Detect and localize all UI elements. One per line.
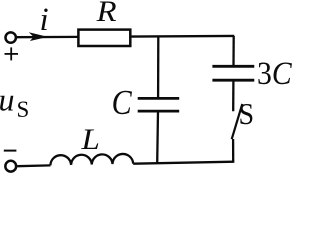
svg-text:i: i bbox=[40, 2, 49, 38]
wire (junction to capacitor C) bbox=[157, 36, 159, 98]
capacitor C bbox=[138, 98, 180, 111]
capacitor 3C bbox=[212, 66, 254, 80]
plus sign bbox=[5, 47, 19, 60]
terminal T1 (top-left, +) bbox=[6, 32, 16, 42]
resistor R bbox=[78, 30, 130, 46]
wire (capacitor C to bottom wire) bbox=[156, 111, 159, 163]
minus sign bbox=[4, 150, 17, 152]
wire (inductor to bottom-right corner) bbox=[133, 162, 234, 164]
wire (switch to bottom-right corner) bbox=[232, 139, 234, 163]
wire (resistor to top-right corner) bbox=[130, 35, 234, 38]
svg-text:3C: 3C bbox=[257, 54, 293, 91]
terminal T2 (bottom-left, -) bbox=[5, 161, 16, 172]
svg-text:u: u bbox=[0, 82, 15, 118]
wire (top-right corner down to capacitor 3C) bbox=[232, 36, 234, 66]
svg-text:S: S bbox=[17, 97, 30, 122]
current arrow i bbox=[29, 32, 48, 41]
svg-text:L: L bbox=[80, 122, 99, 155]
svg-text:R: R bbox=[96, 0, 117, 28]
inductor L bbox=[50, 154, 133, 165]
svg-text:C: C bbox=[112, 84, 133, 123]
wire (top: terminal to resistor) bbox=[17, 36, 78, 39]
wire (capacitor 3C to switch) bbox=[232, 80, 234, 111]
switch S blade bbox=[232, 104, 243, 139]
svg-text:S: S bbox=[238, 98, 254, 131]
wire (bottom-left terminal to inductor) bbox=[17, 164, 50, 167]
